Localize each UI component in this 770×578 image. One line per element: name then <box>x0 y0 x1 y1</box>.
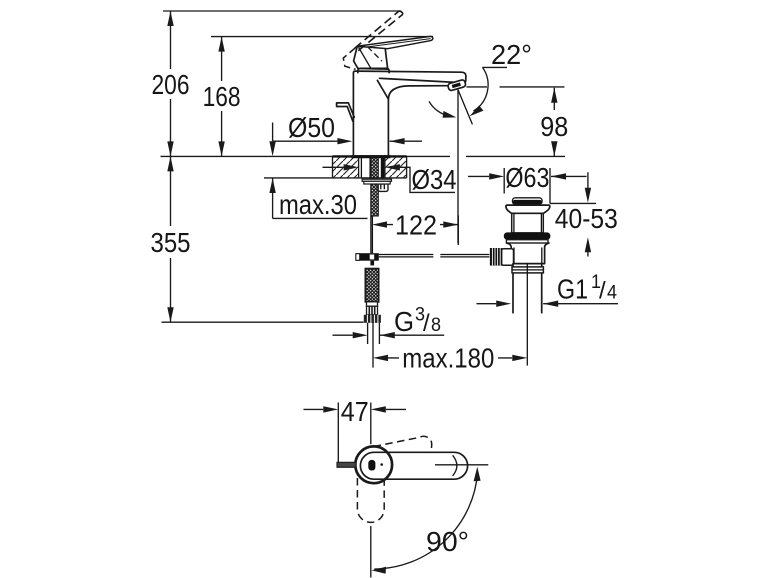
svg-text:40-53: 40-53 <box>555 203 618 234</box>
spout vertical extension line <box>457 90 459 244</box>
pop-up rod guide tube <box>378 184 388 192</box>
svg-text:/: / <box>599 278 606 305</box>
mounting hole tube lines <box>361 157 370 178</box>
extension line top (206 level) <box>163 10 401 12</box>
pop-up rod through counter <box>381 157 385 179</box>
drain knurled knob <box>490 248 502 266</box>
svg-text:355: 355 <box>151 227 191 258</box>
dimension 22 degrees <box>429 39 532 118</box>
braided hose <box>365 269 378 302</box>
dimension 168 <box>203 37 241 157</box>
dimension Ø34 leader <box>323 164 457 195</box>
dimension 122 <box>372 210 458 246</box>
drain upper body <box>512 213 544 233</box>
rod stub below clamp <box>370 261 374 266</box>
dimension 355 <box>151 156 191 322</box>
extension line counter level left <box>161 155 451 157</box>
svg-text:206: 206 <box>152 69 190 100</box>
washer under counter <box>362 179 391 181</box>
drain lower body <box>507 243 549 264</box>
faucet base bottom thick line <box>352 155 391 158</box>
drain coupling <box>512 267 543 273</box>
top view cartridge mark <box>368 460 375 471</box>
svg-text:max.30: max.30 <box>279 189 357 220</box>
dimension 90 degrees <box>371 467 480 574</box>
hose nut <box>364 315 381 323</box>
hose tailpiece G3/8 <box>368 323 380 344</box>
extension line flange top level <box>550 202 596 204</box>
svg-text:max.180: max.180 <box>402 343 494 374</box>
dimension max.30 <box>269 123 367 221</box>
handle base cap <box>358 68 389 72</box>
drain center line <box>526 263 528 366</box>
extension line 168 level <box>211 36 433 38</box>
dashed raised lever <box>343 11 403 70</box>
dimension max.180 <box>373 343 527 374</box>
svg-text:168: 168 <box>203 81 241 112</box>
svg-text:Ø50: Ø50 <box>288 112 335 143</box>
svg-text:/: / <box>423 310 430 337</box>
faucet body outline <box>353 71 466 156</box>
drain O-ring <box>504 232 551 239</box>
aerator <box>447 79 466 91</box>
drain tailpipe <box>513 264 542 313</box>
top view body circle <box>355 446 392 483</box>
extension line counter bottom <box>264 177 333 179</box>
dimension 206 <box>152 11 190 156</box>
nut under counter <box>364 181 390 184</box>
hose center line <box>372 322 374 367</box>
handle knuckle <box>354 46 388 69</box>
dimension G3/8 <box>333 305 445 339</box>
supply pipe <box>371 216 373 253</box>
svg-text:Ø63: Ø63 <box>505 162 549 193</box>
dimension G1 1/4 <box>477 272 619 307</box>
counter hatched right block <box>385 157 407 178</box>
drain under-flange <box>506 240 548 243</box>
svg-text:Ø34: Ø34 <box>412 164 457 195</box>
threaded shank <box>371 157 379 216</box>
svg-text:22°: 22° <box>491 39 532 70</box>
svg-text:90°: 90° <box>426 526 469 557</box>
top view dashed down handle <box>357 478 384 522</box>
dimension 47 <box>304 396 407 464</box>
90 degree reference line <box>435 464 488 466</box>
top view small dot <box>380 463 383 466</box>
dimension Ø50 <box>273 112 422 144</box>
svg-text:G1: G1 <box>557 274 588 305</box>
extension line counter level right <box>466 155 565 157</box>
dimension 98 <box>467 87 569 156</box>
counter top thick edge <box>333 155 407 157</box>
top view center line below <box>370 526 372 578</box>
top view rod tab <box>337 462 356 467</box>
svg-text:98: 98 <box>540 111 568 142</box>
drain push button <box>513 198 543 204</box>
spout 22 degree line <box>458 90 472 125</box>
drain side port <box>502 249 514 266</box>
handle lever blade <box>357 36 433 48</box>
rod clamp <box>356 253 379 261</box>
svg-text:G: G <box>394 306 414 337</box>
extension line hose end level <box>162 321 364 323</box>
hose fitting white ring <box>367 302 378 306</box>
counter hatched left block <box>333 157 407 178</box>
drain flange <box>506 205 550 213</box>
pop-up rod lever at back <box>337 103 355 121</box>
dimension Ø63 <box>468 162 587 203</box>
top view dashed raised handle <box>374 436 432 454</box>
svg-text:4: 4 <box>607 283 617 304</box>
svg-text:47: 47 <box>341 396 369 427</box>
svg-text:122: 122 <box>395 210 437 241</box>
top view solid handle <box>360 452 467 479</box>
horizontal pop-up rod <box>379 255 490 257</box>
dimension 40-53 <box>555 172 618 256</box>
svg-text:8: 8 <box>431 315 441 336</box>
hose fitting striped collar <box>367 306 378 315</box>
